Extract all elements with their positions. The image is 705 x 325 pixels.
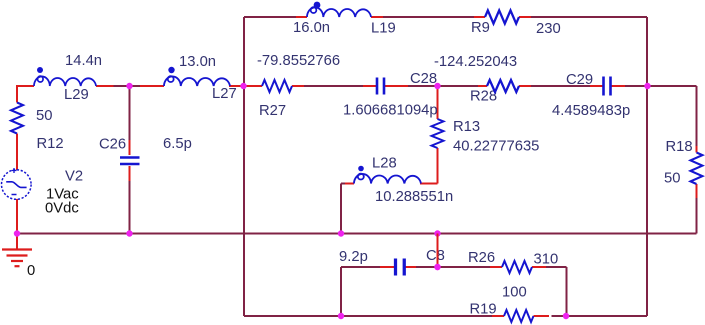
capacitor C8 plates: [396, 259, 405, 276]
wire C28 stubs: [363, 85, 408, 87]
svg-text:C8: C8: [426, 248, 445, 264]
main bottom bus wire: [17, 233, 697, 235]
svg-text:14.4n: 14.4n: [65, 53, 102, 69]
voltage source V2 circle: [1, 170, 31, 200]
svg-text:C29: C29: [566, 72, 593, 88]
wire R18 stubs: [696, 146, 698, 198]
svg-text:0: 0: [27, 263, 35, 279]
node L28 bus: [338, 230, 344, 236]
V2 plus mark: [12, 168, 17, 173]
resistor R26: [502, 261, 532, 273]
V2 sine wave: [6, 182, 26, 188]
svg-text:0Vdc: 0Vdc: [45, 201, 79, 217]
svg-text:16.0n: 16.0n: [293, 20, 330, 36]
wire C29 stubs: [590, 85, 625, 87]
L28 corner dark wire x=341: [341, 184, 345, 234]
wire L27 stubs: [140, 85, 244, 87]
wire R28 stubs: [478, 85, 531, 87]
node C29/R18/box: [644, 83, 650, 89]
capacitor C28 plates: [377, 78, 384, 95]
svg-text:R13: R13: [453, 119, 480, 135]
node C28/R28/R13: [434, 83, 440, 89]
svg-text:R12: R12: [37, 136, 64, 152]
wire L19 stubs: [296, 16, 383, 18]
inductor L27: [164, 76, 230, 86]
resistor R18: [691, 153, 703, 185]
svg-text:4.4589483p: 4.4589483p: [552, 103, 630, 119]
resistor R28 overlay: [487, 80, 519, 92]
V2 minus mark: [12, 194, 17, 196]
node L29/C26/L27: [126, 83, 132, 89]
inductor L29: [34, 76, 96, 86]
R26 dark wires: [438, 267, 567, 316]
svg-text:13.0n: 13.0n: [179, 54, 216, 70]
svg-text:6.5p: 6.5p: [163, 136, 192, 152]
wire C8 stubs: [380, 266, 416, 268]
wire R9 stubs: [474, 16, 531, 18]
wire R12 to V2: [16, 134, 18, 171]
resistor R9: [485, 10, 519, 23]
svg-text:L29: L29: [64, 87, 89, 103]
svg-text:L28: L28: [372, 156, 397, 172]
node C8 branch top: [434, 230, 440, 236]
resistor R12: [11, 103, 23, 134]
svg-text:100: 100: [502, 285, 527, 301]
node C8/R26: [434, 264, 440, 270]
C8 loop dark wires: [341, 267, 438, 316]
C26 branch dark wires x=129.5: [129, 86, 131, 234]
svg-text:50: 50: [664, 171, 680, 187]
wire C8 branch vertical: [437, 234, 439, 268]
svg-text:10.288551n: 10.288551n: [375, 189, 453, 205]
resistor R19: [504, 310, 533, 322]
wire V2/R12/L29 corner: [17, 86, 34, 103]
ground symbol: [2, 250, 32, 267]
wire R26 stubs: [490, 266, 546, 268]
wire C26 stubs: [129, 140, 131, 181]
node ground junction: [14, 230, 20, 236]
svg-text:310: 310: [534, 252, 559, 268]
node C26 bottom: [126, 230, 132, 236]
box left edge wire x=244: [243, 17, 245, 316]
svg-text:C28: C28: [410, 71, 437, 87]
svg-text:1.606681094p: 1.606681094p: [343, 103, 438, 119]
wire R13 stubs: [420, 86, 438, 184]
svg-text:230: 230: [536, 21, 561, 37]
inductor L19: [307, 7, 371, 17]
svg-text:9.2p: 9.2p: [339, 249, 368, 265]
svg-text:V2: V2: [65, 169, 83, 185]
box right edge wire x=647: [646, 17, 648, 316]
R18 branch dark wires x=696.5: [696, 86, 698, 234]
wire R19 stubs: [492, 315, 549, 317]
svg-text:R9: R9: [471, 20, 490, 36]
resistor R27: [262, 80, 292, 92]
wire L29 right stub: [96, 85, 114, 87]
node R19/R26 right: [563, 313, 569, 319]
svg-text:R26: R26: [468, 250, 495, 266]
svg-text:L27: L27: [212, 86, 237, 102]
svg-text:C26: C26: [99, 137, 126, 153]
box top edge wire y=17: [244, 16, 647, 18]
mid row dark wires y=86: [304, 85, 697, 87]
svg-text:-124.252043: -124.252043: [434, 54, 517, 70]
wire L29 to junction dark segment: [114, 85, 130, 87]
svg-text:R18: R18: [666, 139, 693, 155]
box bottom edge wire y=316: [244, 315, 647, 317]
svg-text:40.22777635: 40.22777635: [453, 139, 539, 155]
node L27/R27/box: [240, 83, 246, 89]
capacitor C29 plates: [604, 76, 611, 95]
wire R27 stubs: [244, 85, 304, 87]
wire L28 left stub: [345, 183, 354, 185]
svg-text:R27: R27: [259, 103, 286, 119]
resistor R13: [432, 119, 444, 148]
wire overlay on C8 label: [437, 234, 439, 268]
svg-text:R28: R28: [470, 89, 497, 105]
resistor R28: [487, 80, 519, 92]
svg-text:L19: L19: [371, 21, 396, 37]
wire V2 to ground junction: [16, 199, 18, 249]
capacitor C26 plates (horizontal): [120, 158, 140, 165]
inductor L28: [354, 174, 421, 184]
svg-text:R19: R19: [470, 302, 497, 318]
wire L27 left dark segment: [130, 85, 141, 87]
svg-text:50: 50: [36, 108, 52, 124]
svg-text:-79.8552766: -79.8552766: [257, 53, 340, 69]
node bottom left: [338, 313, 344, 319]
